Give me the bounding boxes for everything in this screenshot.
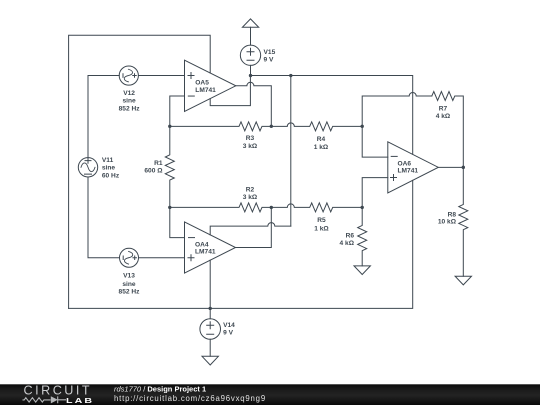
wire OA4 minus input [170, 207, 185, 237]
resistor R4 [271, 122, 362, 131]
svg-text:R1: R1 [154, 160, 163, 167]
wire V11 to V12 [88, 76, 119, 158]
op-amp OA6 [388, 142, 439, 193]
label R4 [314, 136, 329, 151]
wire R4 to R7 riser [362, 93, 432, 127]
junction node R1-R3 [168, 125, 171, 128]
source V13 [120, 248, 139, 267]
junction node rail-branch [289, 74, 292, 77]
wire OA6 plus route [362, 178, 388, 208]
junction node R4-OA6minus [361, 125, 364, 128]
wire OA6 minus route [362, 126, 388, 157]
wire V15 to rail [250, 65, 252, 75]
svg-text:http://circuitlab.com/cz6a96vx: http://circuitlab.com/cz6a96vxq9ng9 [114, 394, 266, 403]
resistor R5 [271, 203, 362, 212]
svg-text:1 kΩ: 1 kΩ [314, 144, 329, 151]
svg-text:R5: R5 [317, 217, 326, 224]
svg-text:10 kΩ: 10 kΩ [438, 219, 457, 226]
resistor R1 [165, 126, 174, 207]
svg-text:sine: sine [122, 98, 136, 105]
wire top-left loop [69, 35, 211, 308]
logo resistor-diode glyph [23, 396, 67, 403]
op-amp OA5 [185, 60, 236, 111]
wire V14 stem [209, 308, 211, 356]
label V13 [119, 273, 141, 296]
logo diode triangle [51, 396, 58, 403]
svg-text:4 kΩ: 4 kΩ [436, 113, 451, 120]
wire OA6 output [438, 166, 463, 168]
svg-text:3 kΩ: 3 kΩ [243, 194, 258, 201]
wire V12 to OA5 + [138, 75, 184, 77]
svg-text:OA5: OA5 [195, 80, 209, 87]
svg-text:852 Hz: 852 Hz [119, 106, 141, 113]
svg-text:R4: R4 [317, 136, 326, 143]
junction node OA6-output [462, 166, 465, 169]
label R8 [438, 212, 457, 226]
svg-text:R3: R3 [246, 135, 255, 142]
power flag V+ [242, 19, 258, 45]
svg-text:V13: V13 [123, 273, 135, 280]
op-amp OA4 [185, 222, 236, 273]
svg-text:V11: V11 [102, 157, 114, 164]
svg-text:LM741: LM741 [195, 87, 216, 94]
svg-text:OA6: OA6 [398, 161, 412, 168]
resistor R3 [170, 122, 271, 131]
wire positive rail top [251, 76, 413, 155]
ground below R8 [455, 276, 471, 285]
source V14 [200, 319, 221, 340]
svg-text:rds1770 / Design Project 1: rds1770 / Design Project 1 [114, 384, 206, 393]
label V15 [264, 49, 276, 64]
wire V11 to V13 [88, 177, 120, 258]
svg-text:R7: R7 [439, 106, 448, 113]
label OA6 [398, 161, 419, 175]
junction node R1-R2 [168, 206, 171, 209]
source V15 [240, 45, 260, 65]
junction node R3-R4 [270, 125, 273, 128]
resistor R7 [432, 92, 464, 168]
label R6 [340, 232, 355, 247]
label R7 [436, 106, 451, 120]
wire OA5 Vminus pin [210, 76, 250, 106]
label OA4 [195, 241, 216, 255]
logo LAB [66, 396, 94, 404]
svg-text:852 Hz: 852 Hz [119, 288, 141, 295]
wire OA4 output to R2 R5 node [236, 207, 272, 247]
svg-text:V15: V15 [264, 49, 276, 56]
svg-text:3 kΩ: 3 kΩ [243, 143, 258, 150]
label R1 [144, 160, 163, 175]
svg-text:V14: V14 [223, 322, 235, 329]
wire V13 to OA4 + [139, 257, 185, 259]
resistor R2 [170, 203, 271, 212]
svg-text:9 V: 9 V [223, 330, 233, 337]
svg-text:60 Hz: 60 Hz [102, 172, 120, 179]
wire OA5 output feedback [236, 82, 271, 126]
svg-text:OA4: OA4 [195, 241, 209, 248]
svg-text:LM741: LM741 [398, 168, 419, 175]
wire OA4 Vminus pin [209, 260, 211, 308]
junction node R5-R6 [361, 206, 364, 209]
ground below R6 [354, 266, 370, 275]
source V11 [78, 158, 97, 177]
resistor R8 [459, 167, 468, 276]
svg-text:1 kΩ: 1 kΩ [314, 225, 329, 232]
wire rail branch down [290, 76, 292, 227]
label R3 [243, 135, 258, 150]
svg-text:LM741: LM741 [195, 249, 216, 256]
ground below V14 [202, 356, 218, 365]
wire negative rail bottom [69, 180, 413, 308]
junction node R2-R5 [270, 206, 273, 209]
label V11 [102, 157, 120, 179]
source V12 [119, 66, 138, 85]
junction node V15-rail [249, 74, 252, 77]
footer bar [0, 384, 540, 405]
junction node V14-rail [209, 307, 212, 310]
svg-text:R6: R6 [346, 232, 355, 239]
label R5 [314, 217, 329, 232]
svg-text:600 Ω: 600 Ω [144, 168, 163, 175]
wire OA5 minus input [170, 96, 185, 126]
resistor R6 [358, 207, 367, 266]
svg-text:LAB: LAB [66, 396, 94, 404]
svg-text:sine: sine [122, 281, 136, 288]
svg-text:V12: V12 [123, 90, 135, 97]
svg-text:9 V: 9 V [264, 57, 274, 64]
label V12 [119, 90, 141, 113]
label R2 [243, 186, 258, 201]
svg-text:4 kΩ: 4 kΩ [340, 240, 355, 247]
svg-text:R8: R8 [448, 212, 457, 219]
label V14 [223, 322, 235, 337]
svg-text:R2: R2 [246, 186, 255, 193]
wire OA4 Vplus pin [210, 223, 291, 235]
label OA5 [195, 80, 216, 94]
svg-text:sine: sine [102, 165, 116, 172]
